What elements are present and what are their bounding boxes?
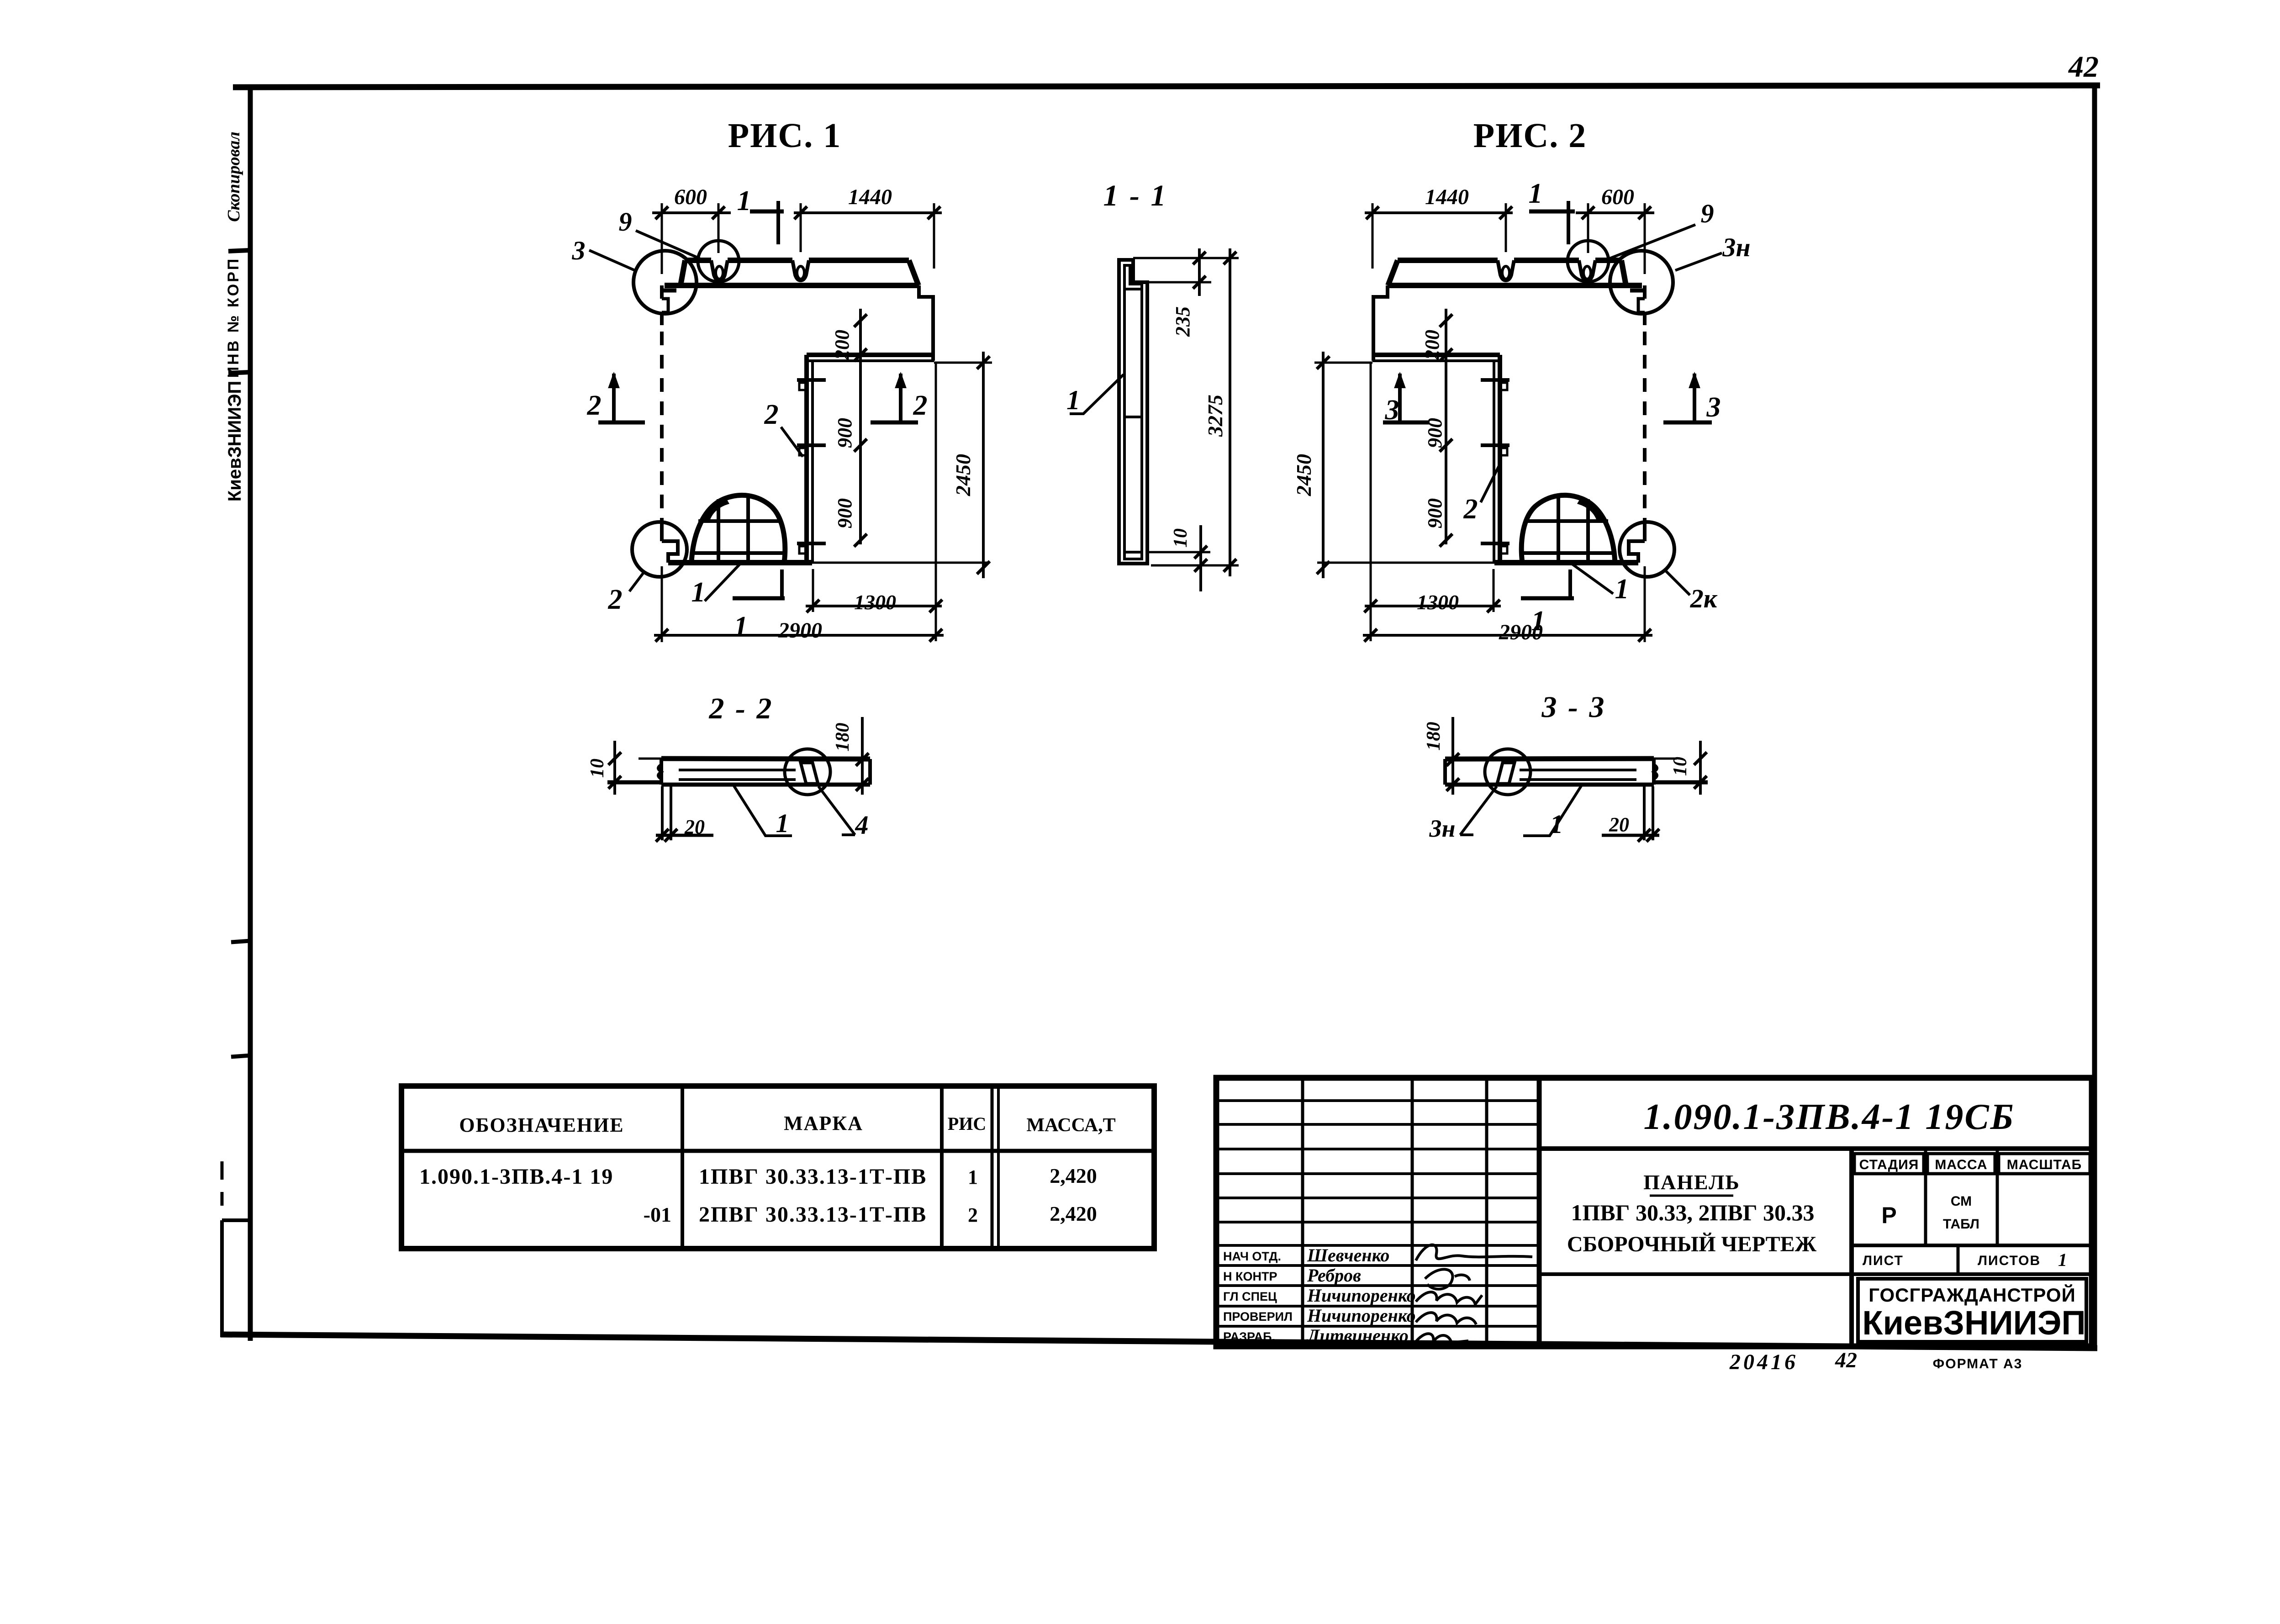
svg-text:НАЧ ОТД.: НАЧ ОТД. [1223, 1250, 1281, 1263]
svg-text:СТАДИЯ: СТАДИЯ [1859, 1157, 1919, 1172]
svg-text:9: 9 [619, 207, 632, 237]
svg-text:3: 3 [572, 236, 586, 265]
svg-text:600: 600 [674, 185, 707, 209]
svg-text:Ребров: Ребров [1307, 1265, 1361, 1286]
svg-text:2,420: 2,420 [1050, 1164, 1097, 1187]
svg-text:900: 900 [834, 498, 856, 528]
svg-text:МАРКА: МАРКА [784, 1112, 863, 1134]
svg-text:20: 20 [1609, 813, 1629, 836]
svg-text:1: 1 [776, 808, 789, 838]
svg-text:ЛИСТ: ЛИСТ [1863, 1253, 1904, 1268]
svg-text:1: 1 [1615, 574, 1629, 605]
svg-text:3н: 3н [1722, 232, 1750, 262]
svg-text:1.090.1-3ПВ.4-1 19: 1.090.1-3ПВ.4-1 19 [419, 1165, 613, 1189]
svg-text:Литвиненко: Литвиненко [1306, 1325, 1409, 1346]
svg-text:1300: 1300 [854, 591, 896, 614]
svg-text:10: 10 [587, 759, 608, 778]
svg-text:3н: 3н [1429, 815, 1456, 842]
svg-text:4: 4 [855, 810, 869, 840]
svg-text:3 - 3: 3 - 3 [1541, 691, 1606, 724]
svg-text:Р: Р [1881, 1202, 1896, 1228]
svg-text:-01: -01 [644, 1203, 671, 1226]
svg-text:ФОРМАТ А3: ФОРМАТ А3 [1933, 1356, 2023, 1371]
svg-text:1: 1 [2058, 1250, 2067, 1270]
svg-text:2ПВГ 30.33.13-1Т-ПВ: 2ПВГ 30.33.13-1Т-ПВ [699, 1202, 927, 1227]
svg-text:10: 10 [1670, 757, 1691, 776]
svg-text:2: 2 [587, 390, 602, 421]
svg-text:2: 2 [968, 1204, 978, 1226]
svg-text:МАСШТАБ: МАСШТАБ [2007, 1157, 2082, 1172]
svg-text:2 - 2: 2 - 2 [709, 692, 774, 725]
svg-text:180: 180 [832, 723, 853, 752]
svg-text:ТАБЛ: ТАБЛ [1943, 1217, 1979, 1232]
svg-text:РИС: РИС [948, 1113, 986, 1134]
svg-text:1: 1 [968, 1166, 978, 1188]
svg-text:1ПВГ 30.33.13-1Т-ПВ: 1ПВГ 30.33.13-1Т-ПВ [699, 1165, 927, 1189]
svg-text:1: 1 [1550, 809, 1563, 839]
svg-text:1440: 1440 [848, 185, 892, 209]
svg-text:1300: 1300 [1417, 591, 1459, 614]
svg-text:600: 600 [1601, 185, 1634, 209]
svg-text:МАССА,Т: МАССА,Т [1026, 1115, 1115, 1136]
svg-text:2450: 2450 [951, 454, 975, 496]
svg-text:1: 1 [737, 185, 751, 216]
svg-text:1: 1 [1529, 178, 1543, 209]
svg-text:200: 200 [1421, 330, 1443, 360]
svg-text:42: 42 [2068, 50, 2099, 84]
svg-text:ПРОВЕРИЛ: ПРОВЕРИЛ [1223, 1310, 1293, 1323]
svg-text:2: 2 [608, 584, 623, 615]
svg-text:2: 2 [764, 399, 779, 430]
svg-text:ГОСГРАЖДАНСТРОЙ: ГОСГРАЖДАНСТРОЙ [1868, 1284, 2076, 1306]
svg-text:2900: 2900 [778, 618, 822, 643]
svg-text:МАССА: МАССА [1935, 1157, 1987, 1172]
svg-text:3275: 3275 [1203, 395, 1227, 437]
svg-text:2: 2 [913, 390, 928, 421]
svg-text:42: 42 [1835, 1348, 1857, 1372]
svg-text:РИС. 1: РИС. 1 [728, 116, 841, 155]
svg-text:2450: 2450 [1292, 454, 1315, 496]
svg-text:3: 3 [1706, 392, 1721, 423]
svg-text:10: 10 [1170, 528, 1191, 548]
svg-text:1: 1 [734, 611, 748, 642]
svg-text:2,420: 2,420 [1050, 1202, 1097, 1225]
svg-text:СБОРОЧНЫЙ ЧЕРТЕЖ: СБОРОЧНЫЙ ЧЕРТЕЖ [1567, 1232, 1817, 1256]
svg-text:ПАНЕЛЬ: ПАНЕЛЬ [1643, 1171, 1740, 1194]
svg-text:9: 9 [1701, 199, 1714, 228]
svg-text:1.090.1-3ПВ.4-1 19СБ: 1.090.1-3ПВ.4-1 19СБ [1643, 1097, 2015, 1137]
svg-text:Ничипоренко: Ничипоренко [1307, 1305, 1416, 1326]
svg-text:200: 200 [831, 330, 853, 360]
svg-text:1: 1 [1066, 385, 1080, 415]
svg-text:1ПВГ 30.33, 2ПВГ 30.33: 1ПВГ 30.33, 2ПВГ 30.33 [1571, 1200, 1814, 1225]
svg-text:900: 900 [1424, 498, 1446, 528]
svg-text:СМ: СМ [1951, 1194, 1972, 1209]
svg-text:РИС. 2: РИС. 2 [1473, 116, 1587, 155]
svg-text:2: 2 [1463, 494, 1478, 525]
svg-text:ОБОЗНАЧЕНИЕ: ОБОЗНАЧЕНИЕ [459, 1114, 624, 1136]
svg-text:20416: 20416 [1729, 1350, 1798, 1374]
svg-text:Ничипоренко: Ничипоренко [1307, 1285, 1416, 1306]
svg-text:235: 235 [1172, 306, 1194, 337]
svg-text:20: 20 [684, 816, 705, 838]
svg-text:Шевченко: Шевченко [1307, 1245, 1389, 1265]
svg-text:2900: 2900 [1499, 620, 1543, 644]
svg-text:РАЗРАБ.: РАЗРАБ. [1223, 1330, 1275, 1344]
svg-text:1440: 1440 [1425, 185, 1469, 209]
svg-text:Скопировал: Скопировал [224, 132, 243, 222]
svg-text:900: 900 [834, 418, 856, 448]
svg-text:КиевЗНИИЭП: КиевЗНИИЭП [225, 381, 245, 502]
svg-text:1: 1 [691, 577, 706, 608]
svg-text:180: 180 [1423, 722, 1444, 751]
svg-text:1 - 1: 1 - 1 [1103, 179, 1168, 212]
svg-text:900: 900 [1424, 418, 1446, 448]
svg-text:ГЛ СПЕЦ: ГЛ СПЕЦ [1223, 1290, 1277, 1303]
svg-text:КиевЗНИИЭП: КиевЗНИИЭП [1862, 1304, 2085, 1342]
svg-text:2к: 2к [1690, 584, 1718, 613]
svg-text:ЛИСТОВ: ЛИСТОВ [1978, 1253, 2041, 1268]
svg-text:ИНВ № КОРП: ИНВ № КОРП [225, 257, 242, 378]
svg-text:Н КОНТР: Н КОНТР [1223, 1270, 1277, 1283]
